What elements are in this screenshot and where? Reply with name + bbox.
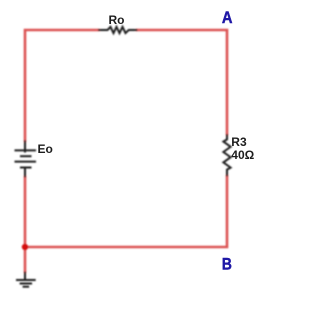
svg-text:40Ω: 40Ω (231, 148, 254, 162)
svg-text:Ro: Ro (109, 13, 125, 27)
ground (16, 272, 36, 287)
wire: R3 bottom down, along bottom to junction (25, 176, 227, 247)
svg-text:Eo: Eo (38, 142, 53, 156)
wire: Ro right lead along top, down to R3 top (137, 30, 227, 134)
resistor R3 (223, 134, 230, 176)
svg-text:A: A (222, 8, 233, 27)
junction dot (22, 244, 28, 250)
battery Eo (15, 140, 37, 177)
resistor Ro (98, 27, 138, 33)
wire: junction down to ground (24, 247, 27, 272)
wire: left side up and top to Ro left lead (25, 30, 99, 141)
wire: battery bottom to junction (24, 177, 27, 247)
svg-text:B: B (222, 254, 232, 273)
